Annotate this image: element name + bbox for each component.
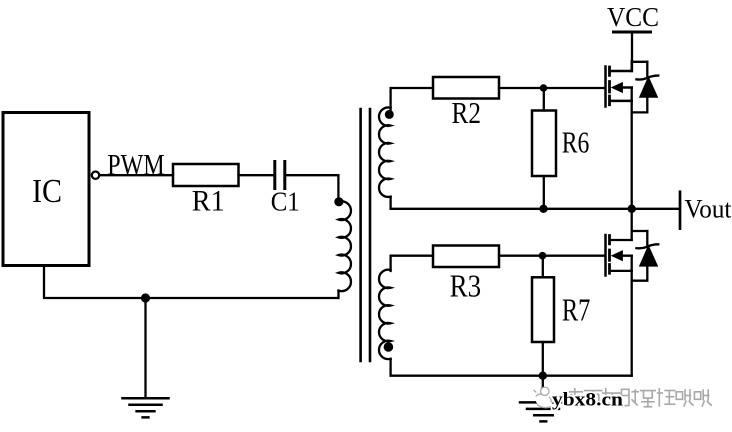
svg-text:R7: R7: [562, 292, 591, 328]
svg-text:R1: R1: [192, 185, 225, 217]
svg-text:IC: IC: [32, 173, 62, 210]
svg-text:R3: R3: [450, 268, 482, 304]
svg-text:C1: C1: [271, 185, 300, 216]
svg-text:VCC: VCC: [607, 1, 659, 32]
svg-text:R2: R2: [452, 95, 482, 130]
svg-text:Vout: Vout: [684, 195, 732, 224]
svg-text:R6: R6: [562, 125, 590, 160]
svg-text:ybx8.cn: ybx8.cn: [552, 391, 624, 411]
svg-text:PWM: PWM: [107, 149, 165, 181]
